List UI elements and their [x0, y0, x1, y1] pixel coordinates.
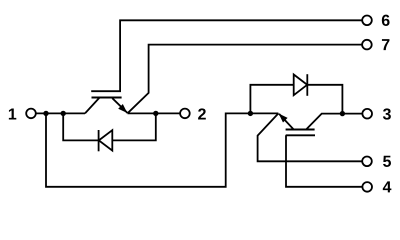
transistor Q1 collector diagonal: [85, 98, 100, 114]
wire Q1 emitter to pin 2: [128, 112, 181, 114]
diode D1 triangle: [99, 130, 113, 150]
transistor Q2 collector diagonal and wire to pin 3: [307, 114, 363, 130]
pin 5 terminal circle: [362, 157, 372, 167]
diode D1 cathode bar: [98, 130, 100, 151]
wire Q1 gate lead to rail 6: [120, 20, 362, 91]
node junction dot A (bottom link tap): [43, 111, 48, 116]
pin label 6: [382, 15, 390, 26]
pin 4 terminal circle: [362, 182, 372, 192]
node junction dot D (diode D2 anode tap): [248, 111, 253, 116]
diode D1 branch wire (anode side): [112, 113, 156, 140]
diode D2 branch wire (anode side): [250, 85, 293, 114]
node junction dot B (diode D1 cathode tap): [61, 111, 66, 116]
pin 3 terminal circle: [362, 109, 372, 119]
diode D1 branch wire (cathode side): [63, 113, 98, 140]
pin 1 terminal circle: [26, 109, 36, 119]
pin label 4: [383, 181, 392, 192]
node junction dot C (emitter / diode anode tap): [153, 111, 158, 116]
node junction dot E (diode D2 cathode tap): [340, 111, 345, 116]
wire Q1 auxiliary emitter to rail 7: [128, 45, 363, 114]
pin 7 terminal circle: [362, 40, 372, 50]
pin label 2: [198, 108, 206, 119]
wire Q2 gate lead to pin 4: [286, 135, 362, 187]
diode D2 branch wire (cathode side): [307, 85, 342, 114]
transistor Q1 emitter diagonal: [112, 98, 127, 113]
transistor Q2 emitter arrowhead: [279, 114, 288, 123]
transistor Q2 gate bar: [286, 134, 315, 136]
transistor Q2 emitter diagonal: [279, 114, 293, 129]
pin 2 terminal circle: [180, 109, 190, 119]
pin label 3: [383, 108, 391, 119]
wire Q2 auxiliary emitter to pin 5: [258, 113, 363, 161]
pin label 7: [382, 39, 390, 50]
transistor Q1 gate bar: [91, 90, 121, 92]
wire bottom link (pin1 node to Q2 emitter node): [46, 113, 278, 186]
transistor Q1 emitter arrowhead: [118, 104, 127, 113]
diode D2 cathode bar: [306, 74, 308, 96]
diode D2 triangle: [294, 75, 308, 96]
pin 6 terminal circle: [362, 15, 372, 25]
transistor Q2 body bar: [286, 128, 315, 130]
transistor Q1 body bar: [92, 96, 122, 98]
pin label 5: [383, 156, 391, 167]
pin label 1: [9, 108, 16, 119]
wire pin1 to Q1 collector: [36, 112, 85, 114]
